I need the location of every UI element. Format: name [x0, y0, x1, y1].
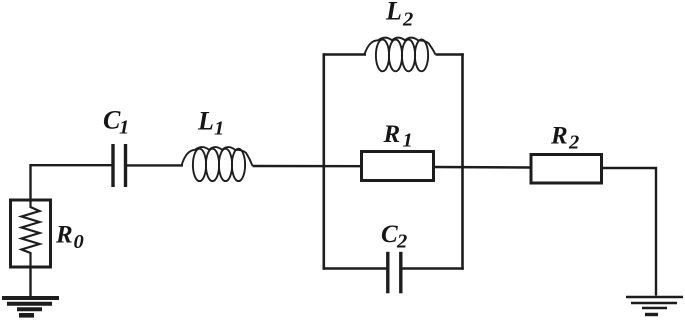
- wire C2 to right rail: [403, 267, 464, 269]
- svg-text:C: C: [381, 221, 398, 248]
- svg-text:L: L: [197, 107, 214, 136]
- inductor L2: [365, 38, 436, 72]
- svg-text:L: L: [385, 0, 402, 26]
- svg-text:2: 2: [568, 132, 579, 154]
- inductor L1: [182, 147, 253, 181]
- svg-text:2: 2: [396, 231, 407, 253]
- ground right: [626, 297, 683, 315]
- resistor R1: [362, 152, 434, 181]
- svg-text:0: 0: [74, 231, 84, 253]
- wire top-left to L2: [323, 53, 366, 55]
- svg-text:1: 1: [214, 118, 224, 140]
- ground left: [2, 298, 59, 315]
- label R1: [383, 121, 413, 152]
- wire R0 to left ground: [29, 267, 31, 297]
- wire L2 to right rail: [436, 53, 464, 55]
- wire from R0 top to C1: [31, 165, 112, 202]
- resistor R2: [531, 155, 602, 184]
- svg-text:1: 1: [119, 117, 129, 139]
- capacitor C1: [113, 144, 126, 187]
- wire from L1 through node to R1: [253, 165, 362, 168]
- wire from C1 to L1: [127, 164, 183, 166]
- resistor R0: [11, 200, 51, 267]
- wire from R1 through node to R2: [434, 166, 532, 169]
- wire bottom-left to C2: [323, 267, 387, 269]
- label C2: [381, 221, 407, 253]
- capacitor C2: [388, 252, 401, 293]
- svg-text:R: R: [383, 121, 401, 148]
- svg-text:2: 2: [402, 9, 413, 31]
- svg-text:1: 1: [403, 130, 413, 152]
- wire right rail of parallel block: [461, 53, 464, 269]
- svg-text:R: R: [55, 222, 73, 249]
- label L1: [197, 107, 224, 140]
- wire from R2 to right ground: [602, 168, 657, 296]
- svg-text:R: R: [550, 123, 568, 150]
- label R0: [55, 222, 84, 254]
- label R2: [550, 123, 579, 154]
- label L2: [385, 0, 413, 31]
- wire left rail of parallel block: [322, 53, 325, 269]
- label C1: [103, 106, 129, 139]
